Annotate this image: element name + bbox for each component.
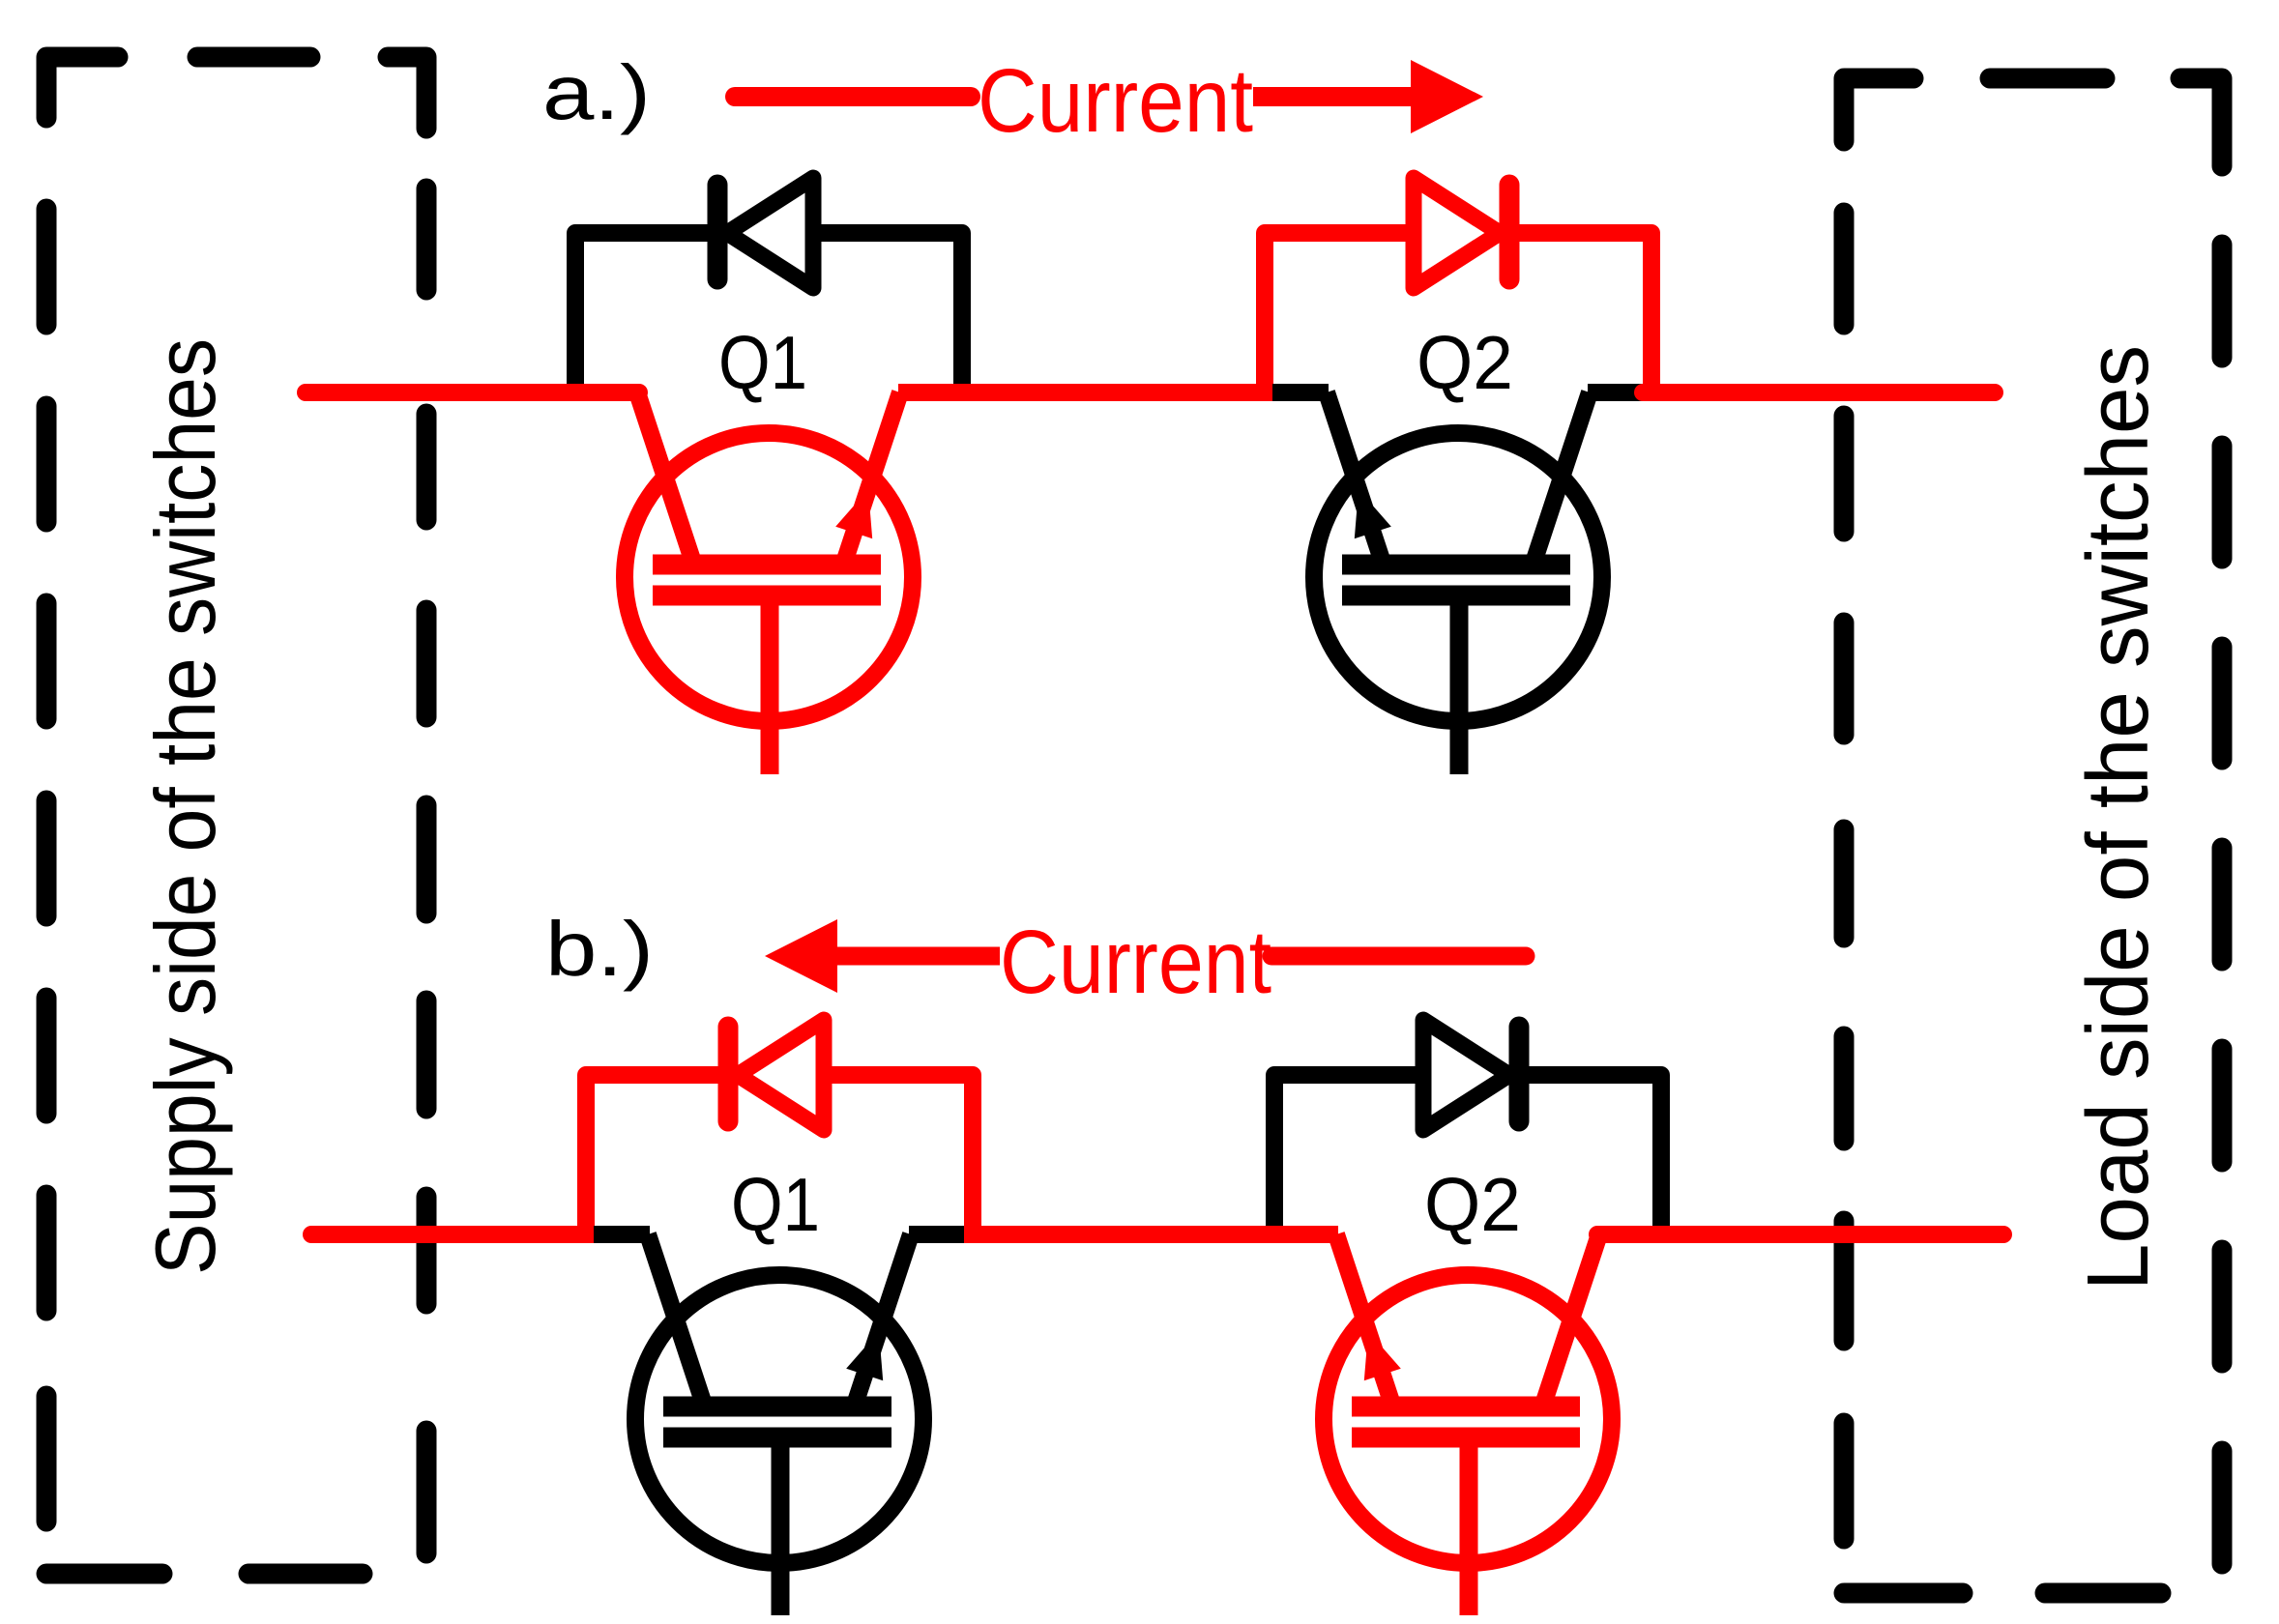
IGBT Q1 (a) gate lead [761,595,779,774]
IGBT Q2 (b) emitter arrow [1364,1331,1401,1380]
load-side dashed box [1844,78,1914,141]
wire b: supply to Q1 [311,1226,594,1243]
svg-text:Supply side of the switches: Supply side of the switches [137,338,233,1275]
svg-text:Current: Current [978,50,1253,151]
current arrow (a), pointing right [735,87,971,106]
wire a: Q1 to Q2 [898,384,1272,401]
IGBT Q2 (b) circle [1324,1275,1612,1563]
IGBT Q1 (a) circle [625,433,913,721]
IGBT Q2 (a) emitter arrow [1355,489,1391,538]
wire b: Q1 to Q2 [964,1226,1338,1243]
svg-text:Load side of the switches: Load side of the switches [2070,345,2167,1290]
IGBT Q1 (a) bars [653,555,881,575]
diode of Q1 (a) (cathode bar) [708,185,728,279]
diode of Q2 (a) (cathode bar) [1500,185,1520,279]
IGBT Q1 (b) bars [663,1397,891,1417]
svg-text:Current: Current [1000,912,1271,1012]
IGBT Q1 (a) emitter arrow [835,489,872,538]
IGBT Q2 (a) bars [1342,555,1570,575]
svg-text:b.): b.) [545,906,654,992]
svg-text:Q2: Q2 [1424,1162,1521,1247]
wire: anti-parallel diode loop of Q1 (a) [575,233,962,392]
svg-text:Q2: Q2 [1417,320,1513,405]
wire a: Q2 to load [1643,384,1995,401]
current arrow (b), pointing left [765,919,837,993]
IGBT Q1 (b) gate lead [772,1437,790,1615]
IGBT Q2 (a) collector/emitter leads [1327,392,1384,565]
wire b: Q1 right stub [909,1226,964,1243]
svg-text:a.): a.) [542,49,651,135]
wire a: Q2 right stub [1588,384,1643,401]
IGBT Q1 (b) emitter arrow [846,1331,883,1380]
IGBT Q2 (b) collector/emitter leads [1336,1234,1393,1407]
wire: anti-parallel diode loop of Q1 (b) [586,1075,973,1234]
IGBT Q1 (b) collector/emitter leads [648,1234,705,1407]
IGBT Q2 (a) gate lead [1450,595,1469,774]
wire b: Q2 to load [1597,1226,2003,1243]
supply-side dashed box [46,57,118,118]
diode of Q2 (b) (triangle) [1423,1020,1509,1130]
diode of Q2 (b) (cathode bar) [1509,1027,1530,1121]
diode of Q2 (a) (triangle) [1414,178,1500,288]
IGBT Q1 (b) circle [635,1275,923,1563]
diode of Q1 (b) (cathode bar) [718,1027,739,1121]
diode of Q1 (a) (triangle) [727,178,813,288]
IGBT Q2 (b) gate lead [1460,1437,1478,1615]
IGBT Q2 (a) circle [1314,433,1602,721]
wire a: Q2 left stub [1272,384,1329,401]
svg-text:Q1: Q1 [731,1162,820,1247]
IGBT Q2 (b) bars [1352,1397,1580,1417]
diode of Q1 (b) (triangle) [738,1020,824,1130]
wire a: supply to Q1 [306,384,639,401]
wire b: Q1 left stub [594,1226,650,1243]
wire: anti-parallel diode loop of Q2 (a) [1265,233,1651,392]
svg-text:Q1: Q1 [718,320,807,405]
IGBT Q1 (a) collector/emitter leads [637,392,694,565]
wire: anti-parallel diode loop of Q2 (b) [1274,1075,1661,1234]
